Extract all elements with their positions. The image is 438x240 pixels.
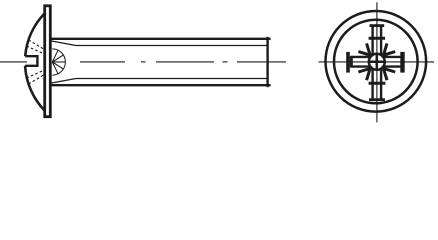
side view: recess cone arc [52, 49, 65, 75]
end view: bottom wing mid bar [369, 82, 386, 85]
side view: thread major line top [51, 38, 271, 40]
side view: centerline left stub [0, 61, 27, 63]
side view: shank end face [266, 37, 268, 87]
side view: shank centerline dash 1 [80, 61, 125, 63]
side view: recess cone ray 2 [52, 55, 63, 62]
end view: bottom wing sides [373, 69, 382, 98]
end view: top wing sides [373, 27, 382, 55]
side view: hidden recess line upper B [27, 46, 45, 54]
end view: diagonal dart upper-right [384, 43, 396, 55]
side view: recess cone ray 1 [52, 61, 65, 63]
end view: top wing mid bar [369, 37, 386, 40]
side view: recess cone ray 3 [52, 62, 63, 69]
side view: dome arc upper [25, 14, 44, 57]
side view: hidden recess line lower B [29, 75, 45, 85]
side view: thread root line top with runout [52, 41, 267, 46]
end view: center cross vertical bar [376, 53, 379, 70]
end view: left wing cap inner bar [350, 56, 353, 68]
end view: right wing cap bar [400, 52, 404, 73]
side view: recess cone ray 5 [52, 62, 58, 74]
side view: thread root line bottom with runout [52, 79, 267, 84]
side view: recess cone ray 4 [52, 50, 58, 62]
side view: thread major line bottom [51, 84, 271, 86]
side view: shank centerline dash 2 [156, 61, 214, 63]
side view: hidden recess line lower A [27, 70, 45, 78]
end view: left wing sides [352, 57, 370, 67]
end view: diagonal dart lower-left [358, 69, 370, 81]
side view: shank centerline dash 3 [237, 61, 286, 63]
end view: horizontal centerline [319, 61, 435, 63]
side view: shank centerline dot 2 [223, 61, 228, 63]
end view: diagonal dart lower-right [384, 69, 396, 81]
end view: inner head circle [334, 20, 418, 104]
end view: center ring [369, 54, 385, 70]
end view: outer flange circle [326, 11, 427, 112]
end view: diagonal dart upper-left [358, 43, 370, 55]
end view: vertical centerline [376, 2, 378, 122]
side view: hidden recess line upper A [29, 40, 45, 50]
side view: dome arc lower [25, 66, 44, 111]
side view: recess notch [25, 56, 37, 66]
end view: center cross horizontal bar [368, 61, 385, 64]
side view: flange washer [45, 6, 51, 117]
end view: top wing cap [370, 24, 385, 27]
end view: right wing sides [384, 57, 402, 67]
side view: shank centerline dot 1 [141, 61, 146, 63]
end view: left wing cap outer bar [346, 52, 350, 73]
end view: bottom wing cap [369, 98, 385, 101]
